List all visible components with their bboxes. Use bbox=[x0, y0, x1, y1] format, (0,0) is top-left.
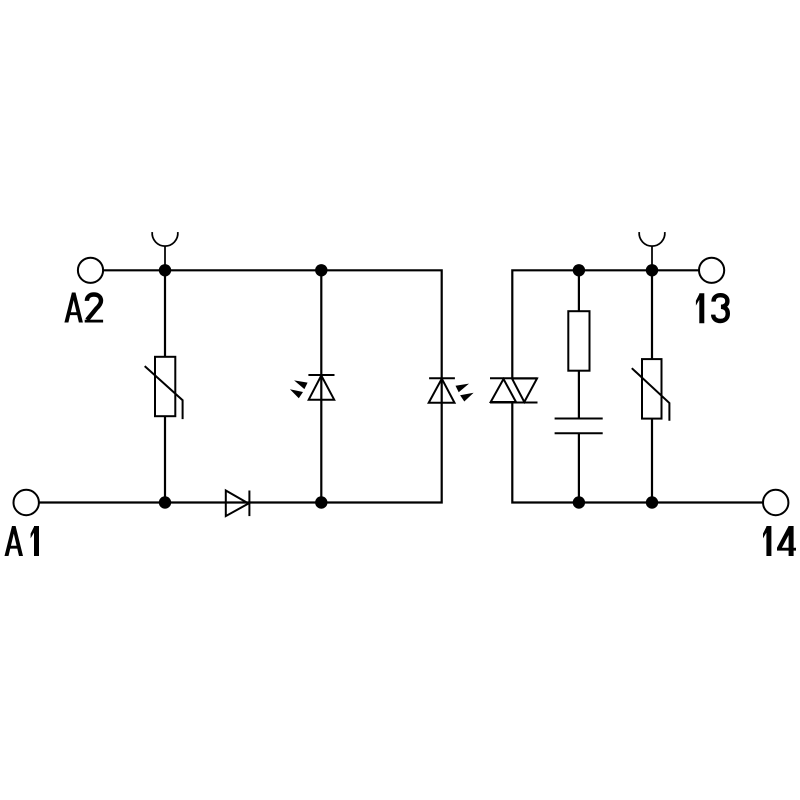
triac up triangle bbox=[491, 379, 516, 402]
junction dot varistor bottom bbox=[159, 496, 171, 508]
triac top bar bbox=[490, 377, 538, 379]
terminal A2 bbox=[78, 258, 103, 283]
junction dot A2-varistor top bbox=[159, 264, 171, 276]
LED1 cathode bar bbox=[308, 374, 334, 376]
junction dot varistor2 top bbox=[646, 264, 658, 276]
label A1 bbox=[5, 526, 40, 556]
socket contact left (plug-in arc) bbox=[152, 232, 178, 246]
terminal 14 bbox=[763, 490, 788, 515]
capacitor C1 top plate bbox=[555, 418, 603, 420]
LED1 light arrow lower bbox=[290, 389, 303, 398]
triac bottom bar bbox=[490, 402, 538, 404]
wire capacitor branch lower bbox=[578, 433, 580, 502]
wire varistor branch upper bbox=[164, 270, 166, 357]
wire resistor branch upper bbox=[578, 270, 580, 311]
LED2 cathode bar bbox=[429, 377, 455, 379]
wire stub right arc to rail bbox=[651, 246, 653, 270]
wire varistor branch lower bbox=[164, 416, 166, 502]
wire varistor2 branch upper bbox=[651, 270, 653, 359]
LED1 triangle bbox=[309, 376, 335, 400]
capacitor C1 bottom plate bbox=[555, 432, 603, 434]
wire triac branch lower with bottom-right rail bbox=[512, 403, 763, 503]
LED2 light arrow lower bbox=[460, 393, 474, 402]
socket contact right (plug-in arc) bbox=[639, 232, 665, 246]
wire varistor2 branch lower bbox=[651, 419, 653, 503]
label 14 bbox=[763, 526, 796, 556]
LED2 light arrow upper bbox=[456, 384, 470, 393]
terminal 13 bbox=[699, 258, 724, 283]
junction dot resistor top bbox=[573, 264, 585, 276]
varistor RU1 body bbox=[155, 357, 175, 416]
LED2 triangle bbox=[429, 379, 455, 403]
label A2 bbox=[64, 293, 103, 323]
wire triac branch upper with top-right rail bbox=[512, 270, 699, 378]
wire resistor to capacitor bbox=[578, 371, 580, 419]
resistor R1 body bbox=[568, 311, 589, 371]
junction dot LED1 bottom bbox=[315, 496, 327, 508]
diode D1 cathode bar bbox=[248, 491, 250, 517]
wire LED1 branch bbox=[320, 270, 322, 502]
terminal A1 bbox=[14, 490, 39, 515]
junction dot varistor2 bottom bbox=[646, 496, 658, 508]
varistor RU2 diagonal stroke bbox=[632, 368, 670, 421]
wire input loop (A2 rail, LED2 edge, A1 rail) bbox=[39, 270, 442, 502]
label 13 bbox=[696, 293, 728, 323]
varistor RU1 diagonal stroke bbox=[145, 366, 183, 419]
wire stub left arc to rail bbox=[164, 246, 166, 270]
triac down triangle bbox=[512, 379, 537, 403]
varistor RU2 body bbox=[642, 359, 662, 419]
LED1 light arrow upper bbox=[294, 380, 308, 389]
junction dot capacitor bottom bbox=[573, 496, 585, 508]
junction dot LED1 top bbox=[315, 264, 327, 276]
diode D1 triangle bbox=[226, 491, 249, 517]
